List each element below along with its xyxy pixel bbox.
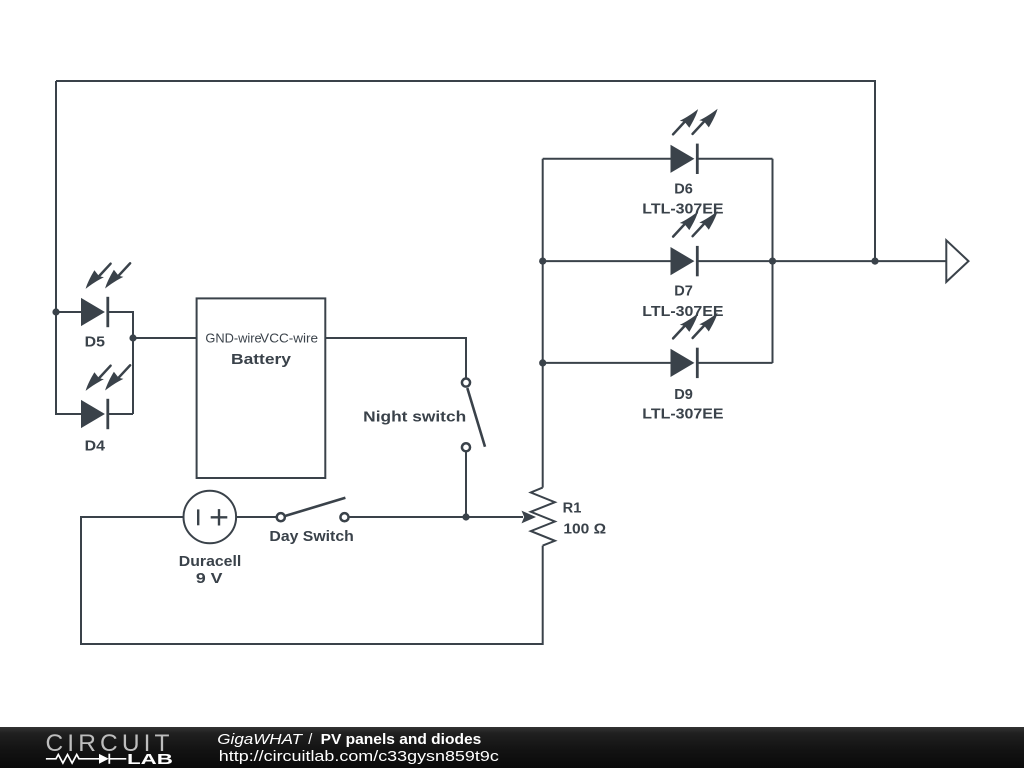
rheostat wiper arrowhead bbox=[522, 511, 537, 524]
led D7 bbox=[671, 211, 718, 276]
node LED bus D7 left bbox=[539, 258, 546, 265]
wire left rail bbox=[56, 81, 81, 414]
svg-text:GND-wire: GND-wire bbox=[205, 330, 261, 345]
svg-text:PV panels and diodes: PV panels and diodes bbox=[321, 732, 482, 748]
svg-text:D9: D9 bbox=[674, 387, 693, 403]
wire D7 row bbox=[543, 260, 671, 262]
wire LED left vertical bus bbox=[542, 159, 544, 488]
svg-text:LTL-307EE: LTL-307EE bbox=[642, 202, 724, 218]
node day switch junction bbox=[462, 513, 469, 520]
svg-text:Duracell: Duracell bbox=[179, 554, 242, 570]
wire D9 row bbox=[543, 362, 671, 364]
svg-text:http://circuitlab.com/c33gysn8: http://circuitlab.com/c33gysn859t9c bbox=[219, 749, 499, 765]
svg-text:Battery: Battery bbox=[231, 352, 291, 368]
resistor R1 (rheostat) bbox=[531, 488, 555, 546]
switch SW2 Night switch bbox=[462, 379, 485, 452]
svg-text:9 V: 9 V bbox=[196, 571, 223, 587]
node LED bus D9 left bbox=[539, 359, 546, 366]
switch SW1 Day Switch bbox=[277, 498, 349, 521]
node output junction bbox=[871, 258, 878, 265]
photodiode D5 bbox=[81, 263, 130, 327]
svg-text:D6: D6 bbox=[674, 182, 693, 198]
svg-text:GigaWHAT: GigaWHAT bbox=[217, 732, 303, 748]
footer bar bbox=[0, 727, 1024, 768]
svg-text:VCC-wire: VCC-wire bbox=[260, 330, 318, 345]
wire D5 cathode bbox=[108, 312, 134, 414]
svg-text:Night switch: Night switch bbox=[363, 409, 466, 425]
svg-text:D7: D7 bbox=[674, 284, 693, 300]
wire bottom left loop bbox=[81, 517, 543, 644]
CircuitLab logo resistor squiggle bbox=[46, 755, 99, 764]
CircuitLab logo diode bbox=[99, 754, 109, 764]
wire battery VCC to night switch bbox=[325, 338, 466, 378]
node LED bus D7 right bbox=[769, 258, 776, 265]
wire source to day switch bbox=[237, 516, 278, 518]
wire LED right vertical bus bbox=[772, 159, 774, 363]
output flag bbox=[946, 240, 968, 282]
wire top rail bbox=[56, 81, 875, 261]
battery box BAT1 bbox=[197, 298, 326, 478]
led D6 bbox=[671, 109, 718, 174]
svg-text:LAB: LAB bbox=[127, 752, 173, 768]
node D5 anode junction bbox=[52, 308, 59, 315]
svg-text:Day Switch: Day Switch bbox=[269, 529, 353, 545]
svg-text:LTL-307EE: LTL-307EE bbox=[642, 407, 724, 423]
wire D5 anode bbox=[56, 311, 81, 313]
led D9 bbox=[671, 313, 718, 378]
photodiode D4 bbox=[81, 365, 130, 429]
wire output bbox=[773, 260, 946, 262]
node battery tap junction bbox=[129, 334, 136, 341]
svg-text:D4: D4 bbox=[85, 439, 105, 455]
svg-text:D5: D5 bbox=[85, 334, 105, 350]
wire D4 cathode bbox=[108, 413, 134, 415]
wire day switch to R1 wiper bbox=[349, 516, 524, 518]
voltage source V1 Duracell bbox=[184, 491, 237, 544]
svg-text:R1: R1 bbox=[563, 500, 582, 516]
wire D6 row bbox=[543, 158, 671, 160]
wire to battery GND pin bbox=[133, 337, 197, 339]
wire night switch to day switch node bbox=[465, 451, 467, 517]
svg-text:100 Ω: 100 Ω bbox=[563, 521, 606, 537]
svg-text:LTL-307EE: LTL-307EE bbox=[642, 304, 724, 320]
